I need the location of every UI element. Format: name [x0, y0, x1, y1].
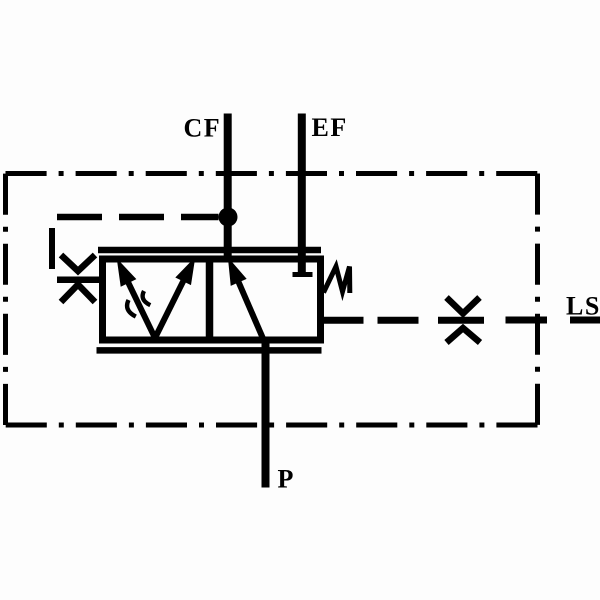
wire LS dashed segment 2 [506, 317, 548, 324]
enclosure dash-dot boundary right edge [535, 174, 540, 426]
svg-text:LS: LS [566, 292, 600, 321]
throttling arc mark lower-left [127, 300, 136, 317]
wire LS dashed segment 3 to edge [570, 317, 600, 324]
svg-text:CF: CF [184, 114, 222, 143]
wire CF supply line [224, 114, 232, 263]
orifice (left pilot restrictor) lower chevron [61, 285, 95, 303]
node junction dot on CF pilot tap [219, 208, 238, 227]
EF blocked-port crossbar [293, 272, 313, 277]
valve body outer bottom line [97, 347, 322, 354]
enclosure dash-dot boundary left edge [3, 174, 8, 426]
right position arrow shaft P to CF [238, 281, 264, 342]
wire P pressure line [262, 340, 270, 488]
orifice (LS restrictor) lower chevron [447, 328, 481, 343]
wire EF line [298, 114, 306, 274]
right position arrowhead [230, 261, 245, 284]
orifice (left pilot restrictor) upper chevron [61, 255, 95, 271]
enclosure dash-dot boundary bottom edge [6, 423, 538, 428]
orifice (LS restrictor) bar [438, 317, 484, 324]
wire dashed pilot line to left orifice [57, 214, 219, 221]
enclosure dash-dot boundary top edge [6, 171, 538, 176]
valve main box [103, 259, 321, 340]
valve body outer top line [98, 247, 321, 254]
orifice (LS restrictor) upper chevron [447, 298, 480, 314]
left position flow-divider right arrow shaft [155, 280, 184, 338]
svg-text:EF: EF [312, 113, 348, 142]
orifice (left pilot restrictor) bar [57, 276, 100, 283]
spring on valve right side [324, 267, 350, 294]
svg-text:P: P [278, 465, 295, 494]
wire LS dashed segment 1 [378, 317, 419, 324]
valve position divider [206, 259, 214, 340]
wire LS solid stub from valve [321, 317, 364, 324]
left position flow-divider right arrowhead [177, 261, 193, 284]
throttling arc mark upper-right [143, 291, 151, 305]
left position flow-divider left arrowhead [119, 262, 135, 285]
wire dashed pilot corner vertical segment [49, 228, 55, 269]
left position flow-divider left arrow shaft [128, 282, 155, 338]
